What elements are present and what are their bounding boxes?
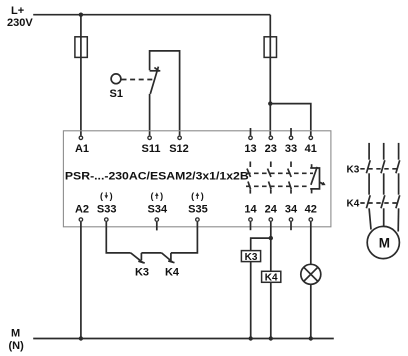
stub wire above 33	[290, 128, 292, 135]
pin label 41	[305, 143, 317, 155]
net label M (N)	[9, 328, 25, 353]
svg-text:42: 42	[305, 203, 317, 215]
svg-text:M: M	[379, 236, 390, 251]
wire K3 coil to M bus	[250, 262, 252, 339]
svg-text:23: 23	[265, 143, 277, 155]
svg-text:24: 24	[265, 203, 278, 215]
label K4 contactor	[347, 199, 360, 210]
wire K3 to K4 contact	[141, 252, 161, 254]
svg-text:S33: S33	[97, 203, 117, 215]
contact K4 blade tick	[168, 261, 174, 263]
svg-text:): )	[110, 191, 113, 201]
terminal S33	[105, 218, 109, 222]
junction A2 / bus	[79, 336, 83, 340]
contact K3 fixed stub	[140, 253, 142, 260]
NC contact fixed bar	[150, 70, 161, 72]
phase wire 1 top stub	[368, 143, 370, 160]
svg-text:K4: K4	[347, 199, 360, 210]
wire S33 down	[106, 222, 130, 253]
lamp cross stroke 2	[304, 267, 318, 281]
terminal 13	[249, 136, 253, 140]
NC contact S11-S12 top loop wire	[150, 51, 180, 135]
relay block PSR outline	[63, 131, 331, 227]
pin label 14	[244, 203, 257, 215]
label K4 (feedback contact)	[165, 266, 180, 278]
svg-text:A1: A1	[75, 143, 89, 155]
pushbutton S1	[111, 74, 121, 84]
contactor K4 pole 3 blade	[396, 195, 400, 208]
internal NC contact 41-42 with forced guidance	[310, 164, 325, 193]
pin label 34	[285, 203, 298, 215]
svg-text:K3: K3	[135, 266, 149, 278]
phase wire 2 top stub	[383, 143, 385, 160]
contact K3 blade (feedback loop)	[131, 253, 143, 263]
terminal A2	[79, 218, 83, 222]
svg-text:PSR-...-230AC/ESAM2/3x1/1x2B: PSR-...-230AC/ESAM2/3x1/1x2B	[65, 170, 249, 182]
internal contact 13-14	[247, 162, 251, 194]
coil K4	[262, 271, 281, 282]
contactor K4 linkage dashes	[360, 202, 397, 204]
label K3 coil	[245, 252, 258, 263]
wire L+ top bus	[33, 14, 270, 16]
pin label 24	[265, 203, 278, 215]
fuse F1	[75, 37, 87, 58]
pin label 33	[285, 143, 297, 155]
label K4 coil	[265, 273, 278, 284]
contactor K3 linkage dashes	[360, 168, 397, 170]
wire junction to terminal 41	[270, 104, 311, 136]
wire A2 to M bus	[80, 222, 82, 339]
terminal S35	[196, 218, 200, 222]
svg-text:(: (	[191, 191, 194, 201]
svg-text:A2: A2	[75, 203, 89, 215]
svg-text:S1: S1	[110, 88, 123, 100]
terminal S34	[155, 218, 159, 222]
svg-text:41: 41	[305, 143, 317, 155]
stub wire below S34	[156, 222, 158, 231]
internal contact 23-24	[268, 162, 272, 194]
wire K4 contact to S35	[171, 222, 198, 253]
terminal 34	[289, 218, 293, 222]
contactor K3 pole 2 blade	[381, 160, 385, 173]
wire F1 drop L+ to A1	[80, 15, 82, 136]
wire lamp to M bus	[310, 284, 312, 338]
mechanical link S1 to contact (dashed)	[122, 79, 155, 81]
pin label 42	[305, 203, 317, 215]
phase wire 2 to motor	[383, 208, 385, 226]
pin label S35	[188, 203, 208, 215]
arrow label above S35	[191, 191, 204, 201]
svg-text:13: 13	[244, 143, 256, 155]
wire M bottom bus	[33, 338, 334, 340]
pin label S33	[97, 203, 117, 215]
stub wire below 34	[290, 222, 292, 230]
stub wire below 14	[250, 222, 252, 230]
wire 24 down to K4 coil	[270, 222, 272, 271]
wire F2 branch drop to junction	[269, 15, 271, 104]
terminal 41	[309, 136, 313, 140]
terminal S12	[178, 136, 182, 140]
arrow label above S33	[100, 191, 113, 201]
motor M1	[367, 226, 399, 258]
svg-text:33: 33	[285, 143, 297, 155]
NC contact blade	[150, 67, 158, 94]
phase wire 3 to motor	[397, 208, 399, 231]
contact K4 fixed stub	[170, 253, 172, 260]
label S1	[110, 88, 123, 100]
svg-text:M: M	[11, 328, 20, 340]
internal linkage dashes lower	[246, 185, 310, 187]
terminal S11	[148, 136, 152, 140]
pin label S11	[142, 143, 161, 155]
device label PSR-...-230AC/ESAM2/3x1/1x2B	[65, 170, 249, 182]
arrow label above S34	[151, 191, 164, 201]
pin label S34	[148, 203, 168, 215]
contactor K3 pole 3 blade	[396, 160, 400, 173]
svg-text:S12: S12	[169, 143, 189, 155]
lamp cross stroke 1	[304, 267, 318, 281]
internal contact 33-34	[288, 162, 292, 194]
terminal 42	[309, 218, 313, 222]
svg-text:S35: S35	[188, 203, 208, 215]
svg-text:(: (	[151, 191, 154, 201]
fuse F2	[264, 37, 276, 58]
coil K3	[241, 251, 260, 262]
junction L+ bus / F1	[79, 13, 83, 17]
terminal A1	[79, 136, 83, 140]
contactor K4 pole 2 blade	[381, 195, 385, 208]
phase wire 1 middle	[368, 173, 370, 194]
contact K4 blade (feedback loop)	[162, 253, 173, 263]
terminal 23	[269, 136, 273, 140]
wire branch to K3 coil	[251, 238, 271, 251]
wire 42 to lamp	[310, 222, 312, 264]
stub wire above 13	[250, 128, 252, 135]
svg-text:L+: L+	[11, 5, 24, 17]
svg-text:): )	[160, 191, 163, 201]
phase wire 3 middle	[398, 173, 400, 194]
contact K3 blade tick	[138, 261, 144, 263]
svg-text:K3: K3	[347, 164, 360, 175]
phase wire 3 top stub	[398, 143, 400, 160]
pin label S12	[169, 143, 189, 155]
terminal 14	[249, 218, 253, 222]
label M motor	[379, 236, 390, 251]
contactor K3 pole 1 blade	[366, 160, 370, 173]
terminal 24	[269, 218, 273, 222]
junction lamp / bus	[309, 336, 313, 340]
pin label A2	[75, 203, 89, 215]
svg-text:230V: 230V	[7, 17, 33, 29]
svg-text:(: (	[100, 191, 103, 201]
phase wire 2 middle	[383, 173, 385, 194]
terminal 33	[289, 136, 293, 140]
svg-text:34: 34	[285, 203, 298, 215]
indicator lamp	[301, 264, 321, 284]
svg-text:K4: K4	[165, 266, 180, 278]
svg-text:S34: S34	[148, 203, 168, 215]
junction K3 coil / bus	[249, 336, 253, 340]
junction 24 branch	[269, 236, 273, 240]
label K3 contactor	[347, 164, 360, 175]
wire K4 coil to M bus	[270, 282, 272, 338]
svg-text:14: 14	[244, 203, 257, 215]
svg-text:): )	[201, 191, 204, 201]
svg-text:K3: K3	[245, 252, 258, 263]
svg-text:(N): (N)	[9, 340, 25, 352]
internal linkage dashes upper	[246, 172, 313, 174]
label K3 (feedback contact)	[135, 266, 149, 278]
pin label 13	[244, 143, 256, 155]
contactor K4 pole 1 blade	[366, 195, 370, 208]
phase wire 1 to motor	[369, 208, 371, 229]
wire blade to terminal S11	[149, 94, 151, 135]
net label L+ 230V	[7, 5, 33, 29]
pin label 23	[265, 143, 277, 155]
svg-text:S11: S11	[142, 143, 161, 155]
junction K4 coil / bus	[269, 336, 273, 340]
wire junction to terminal 23	[269, 104, 271, 136]
NC contact blade tick	[154, 68, 159, 72]
svg-text:K4: K4	[265, 273, 278, 284]
pin label A1	[75, 143, 89, 155]
junction F2 output node	[268, 101, 272, 105]
